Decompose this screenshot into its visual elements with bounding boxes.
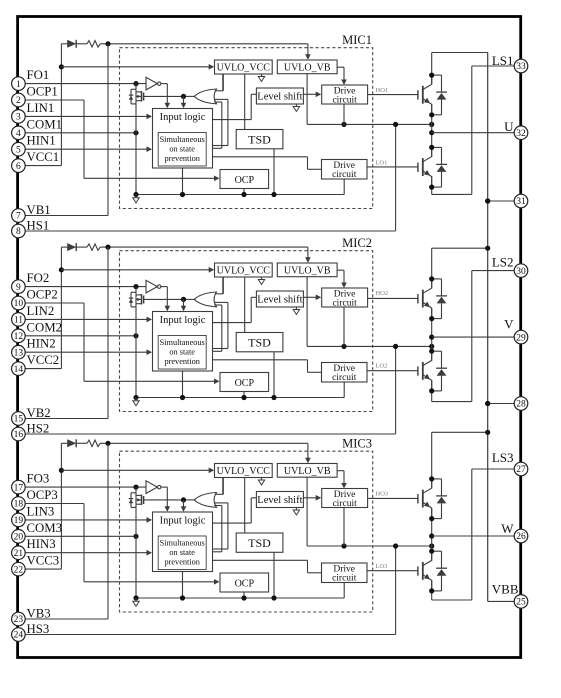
svg-text:UVLO_VB: UVLO_VB <box>284 63 331 74</box>
svg-text:24: 24 <box>14 631 24 641</box>
svg-text:13: 13 <box>14 348 24 358</box>
svg-text:OCP3: OCP3 <box>27 488 58 502</box>
svg-text:VCC3: VCC3 <box>27 554 60 568</box>
svg-text:OCP: OCP <box>235 578 255 589</box>
svg-text:W: W <box>501 521 514 536</box>
svg-text:MIC3: MIC3 <box>342 437 372 451</box>
svg-text:HO3: HO3 <box>376 491 389 498</box>
svg-text:LO2: LO2 <box>376 362 388 369</box>
svg-text:30: 30 <box>516 267 526 277</box>
svg-text:7: 7 <box>16 212 21 222</box>
svg-text:31: 31 <box>516 197 526 207</box>
svg-text:23: 23 <box>14 615 24 625</box>
svg-text:COM1: COM1 <box>27 117 63 131</box>
svg-text:prevention: prevention <box>164 357 200 366</box>
svg-text:OCP2: OCP2 <box>27 288 58 302</box>
svg-text:27: 27 <box>516 465 526 475</box>
svg-text:LO1: LO1 <box>376 159 388 166</box>
svg-text:25: 25 <box>516 598 526 608</box>
svg-text:HIN3: HIN3 <box>27 537 56 551</box>
svg-text:circuit: circuit <box>332 95 357 105</box>
svg-text:OCP1: OCP1 <box>27 85 58 99</box>
svg-text:Level shift: Level shift <box>257 92 302 103</box>
svg-text:FO2: FO2 <box>27 271 50 285</box>
svg-text:LS3: LS3 <box>492 450 514 465</box>
svg-text:HO1: HO1 <box>376 87 389 94</box>
svg-text:U: U <box>504 119 514 134</box>
svg-text:26: 26 <box>516 532 526 542</box>
svg-text:1: 1 <box>16 80 21 90</box>
svg-text:Level shift: Level shift <box>257 495 302 506</box>
svg-text:UVLO_VCC: UVLO_VCC <box>217 266 271 277</box>
svg-text:Simultaneous: Simultaneous <box>160 539 205 548</box>
svg-text:UVLO_VCC: UVLO_VCC <box>217 63 271 74</box>
svg-text:Level shift: Level shift <box>257 295 302 306</box>
svg-text:Simultaneous: Simultaneous <box>160 135 205 144</box>
svg-text:on state: on state <box>169 348 195 357</box>
svg-text:UVLO_VB: UVLO_VB <box>284 266 331 277</box>
svg-text:21: 21 <box>14 549 24 559</box>
svg-text:15: 15 <box>14 415 24 425</box>
svg-text:8: 8 <box>16 227 21 237</box>
svg-text:9: 9 <box>16 283 21 293</box>
svg-text:12: 12 <box>14 332 24 342</box>
svg-text:VB1: VB1 <box>27 203 51 217</box>
svg-text:circuit: circuit <box>332 170 357 180</box>
svg-text:COM3: COM3 <box>27 521 63 535</box>
svg-text:prevention: prevention <box>164 558 200 567</box>
svg-text:HIN1: HIN1 <box>27 134 56 148</box>
svg-text:Simultaneous: Simultaneous <box>160 338 205 347</box>
svg-text:VB2: VB2 <box>27 406 51 420</box>
svg-text:16: 16 <box>14 430 24 440</box>
svg-text:HO2: HO2 <box>376 290 389 297</box>
svg-text:14: 14 <box>14 365 24 375</box>
svg-text:on state: on state <box>169 145 195 154</box>
svg-text:VCC1: VCC1 <box>27 150 60 164</box>
svg-text:20: 20 <box>14 533 24 543</box>
svg-text:on state: on state <box>169 548 195 557</box>
svg-text:28: 28 <box>516 400 526 410</box>
svg-text:LO3: LO3 <box>376 563 388 570</box>
svg-text:17: 17 <box>14 483 24 493</box>
svg-text:HIN2: HIN2 <box>27 337 56 351</box>
svg-text:Input logic: Input logic <box>160 315 206 326</box>
svg-text:FO3: FO3 <box>27 472 50 486</box>
svg-text:19: 19 <box>14 516 24 526</box>
svg-text:circuit: circuit <box>332 298 357 308</box>
svg-text:V: V <box>504 317 514 332</box>
svg-text:OCP: OCP <box>235 378 255 389</box>
svg-text:LS2: LS2 <box>492 254 514 269</box>
svg-text:3: 3 <box>16 113 21 123</box>
svg-text:HS2: HS2 <box>27 422 50 436</box>
svg-text:HS1: HS1 <box>27 219 50 233</box>
svg-text:2: 2 <box>16 96 21 106</box>
svg-text:circuit: circuit <box>332 499 357 509</box>
svg-text:HS3: HS3 <box>27 622 50 636</box>
svg-text:prevention: prevention <box>164 154 200 163</box>
svg-text:29: 29 <box>516 333 526 343</box>
svg-text:circuit: circuit <box>332 373 357 383</box>
svg-text:LIN2: LIN2 <box>27 304 55 318</box>
svg-text:TSD: TSD <box>248 133 271 147</box>
svg-text:VB3: VB3 <box>27 607 51 621</box>
svg-text:UVLO_VB: UVLO_VB <box>284 466 331 477</box>
svg-text:11: 11 <box>14 316 23 326</box>
svg-text:OCP: OCP <box>235 175 255 186</box>
svg-text:32: 32 <box>516 129 526 139</box>
svg-text:LIN1: LIN1 <box>27 101 55 115</box>
svg-text:33: 33 <box>516 62 526 72</box>
svg-text:22: 22 <box>14 565 24 575</box>
svg-text:COM2: COM2 <box>27 320 63 334</box>
svg-text:TSD: TSD <box>248 536 271 550</box>
svg-text:10: 10 <box>14 299 24 309</box>
svg-text:6: 6 <box>16 162 21 172</box>
svg-text:circuit: circuit <box>332 573 357 583</box>
svg-text:UVLO_VCC: UVLO_VCC <box>217 466 271 477</box>
svg-text:MIC1: MIC1 <box>342 33 372 47</box>
svg-text:Input logic: Input logic <box>160 112 206 123</box>
svg-text:Input logic: Input logic <box>160 516 206 527</box>
svg-text:18: 18 <box>14 500 24 510</box>
svg-text:VCC2: VCC2 <box>27 353 60 367</box>
svg-text:LIN3: LIN3 <box>27 504 55 518</box>
svg-text:VBB: VBB <box>492 582 519 597</box>
svg-text:MIC2: MIC2 <box>342 236 372 250</box>
svg-text:LS1: LS1 <box>492 53 514 68</box>
svg-text:TSD: TSD <box>248 336 271 350</box>
svg-text:5: 5 <box>16 145 21 155</box>
svg-text:4: 4 <box>16 129 21 139</box>
svg-text:FO1: FO1 <box>27 68 50 82</box>
